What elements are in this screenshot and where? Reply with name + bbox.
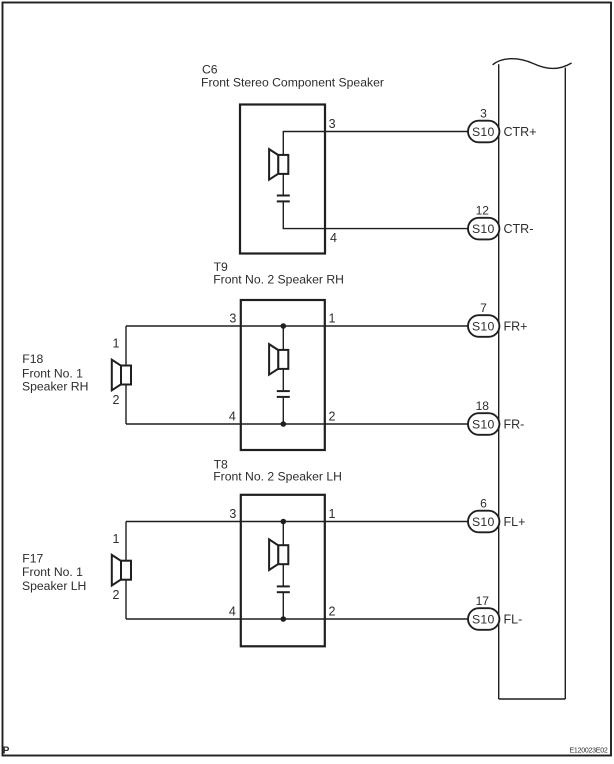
svg-text:S10: S10 — [472, 319, 495, 333]
svg-text:17: 17 — [476, 594, 490, 608]
svg-text:S10: S10 — [472, 515, 495, 529]
junction dot T9 bottom — [281, 421, 287, 427]
svg-text:Front No. 1: Front No. 1 — [22, 366, 83, 380]
junction dot T8 top — [281, 519, 287, 525]
wire F18 left loop — [125, 326, 127, 424]
svg-text:S10: S10 — [472, 222, 495, 236]
speaker F18 — [112, 360, 131, 391]
connector S10 pin 6 — [468, 497, 499, 533]
svg-text:2: 2 — [329, 410, 336, 424]
svg-text:2: 2 — [113, 588, 120, 602]
svg-text:Speaker LH: Speaker LH — [22, 579, 86, 593]
svg-text:FR+: FR+ — [504, 319, 528, 333]
svg-text:6: 6 — [480, 497, 487, 511]
svg-text:CTR-: CTR- — [504, 222, 534, 236]
connector S10 pin 18 — [468, 399, 499, 435]
harness bus S10 (shield/trunk) — [493, 59, 572, 699]
svg-text:4: 4 — [229, 410, 236, 424]
svg-text:FR-: FR- — [504, 417, 525, 431]
svg-text:18: 18 — [476, 399, 490, 413]
wire capacitor to bottom (T8) — [282, 592, 284, 619]
connector S10 pin 3 — [468, 107, 499, 143]
svg-text:F17: F17 — [22, 551, 43, 565]
connector S10 pin 17 — [468, 594, 499, 630]
svg-text:S10: S10 — [472, 125, 495, 139]
svg-text:Front Stereo Component Speaker: Front Stereo Component Speaker — [201, 76, 384, 90]
svg-text:4: 4 — [229, 605, 236, 619]
connector box C6 — [240, 105, 325, 254]
connector box T9 — [241, 300, 325, 450]
svg-text:Front No. 1: Front No. 1 — [22, 565, 83, 579]
svg-text:S10: S10 — [472, 612, 495, 626]
svg-text:2: 2 — [329, 605, 336, 619]
svg-text:P: P — [3, 745, 10, 756]
capacitor (T9 internal) — [277, 391, 290, 397]
speaker T8 — [269, 539, 288, 570]
wire T9 internal top — [282, 326, 284, 350]
svg-text:FL+: FL+ — [504, 515, 526, 529]
svg-text:7: 7 — [480, 301, 487, 315]
wire F17 left loop — [125, 522, 127, 620]
svg-text:1: 1 — [329, 312, 336, 326]
svg-text:12: 12 — [476, 204, 490, 218]
svg-text:1: 1 — [329, 507, 336, 521]
speaker T9 — [269, 344, 288, 375]
connector box T8 — [241, 495, 325, 647]
wire F17 pin1 / T8 pin3-pin1 to S10 (FL+) — [126, 521, 468, 523]
svg-text:4: 4 — [330, 231, 337, 245]
connector S10 pin 12 — [468, 204, 499, 240]
svg-text:CTR+: CTR+ — [504, 125, 537, 139]
wire C6 pin4 to S10 (CTR-) — [283, 201, 468, 228]
svg-text:Front No. 2 Speaker RH: Front No. 2 Speaker RH — [213, 273, 344, 287]
junction dot T8 bottom — [281, 616, 287, 622]
svg-text:1: 1 — [113, 337, 120, 351]
wire speaker to capacitor (T8) — [282, 564, 284, 585]
wire F18 pin2 / T9 pin4-pin2 to S10 (FR-) — [126, 423, 468, 425]
svg-text:1: 1 — [113, 532, 120, 546]
wire F17 pin2 / T8 pin4-pin2 to S10 (FL-) — [126, 618, 468, 620]
wire F18 pin1 / T9 pin3-pin1 to S10 (FR+) — [126, 325, 468, 327]
capacitor (C6 internal) — [277, 196, 290, 202]
junction dot T9 top — [281, 323, 287, 329]
svg-text:FL-: FL- — [504, 612, 523, 626]
svg-text:3: 3 — [229, 312, 236, 326]
wire speaker to capacitor (C6) — [282, 174, 284, 195]
speaker F17 — [112, 555, 131, 586]
speaker C6 — [269, 149, 288, 180]
svg-text:2: 2 — [113, 393, 120, 407]
wire capacitor to bottom (T9) — [282, 397, 284, 424]
wire speaker to capacitor (T9) — [282, 369, 284, 390]
connector S10 pin 7 — [468, 301, 499, 337]
capacitor (T8 internal) — [277, 586, 290, 592]
svg-text:3: 3 — [480, 107, 487, 121]
svg-text:C6: C6 — [202, 62, 218, 76]
svg-text:S10: S10 — [472, 417, 495, 431]
wire C6 pin3 to S10 (CTR+) — [283, 132, 468, 155]
svg-text:F18: F18 — [22, 352, 43, 366]
svg-text:3: 3 — [229, 507, 236, 521]
svg-text:3: 3 — [329, 117, 336, 131]
svg-text:E120023E02: E120023E02 — [570, 747, 608, 754]
wire T8 internal top — [282, 522, 284, 546]
svg-text:Speaker RH: Speaker RH — [22, 380, 88, 394]
svg-text:Front No. 2 Speaker LH: Front No. 2 Speaker LH — [213, 470, 342, 484]
